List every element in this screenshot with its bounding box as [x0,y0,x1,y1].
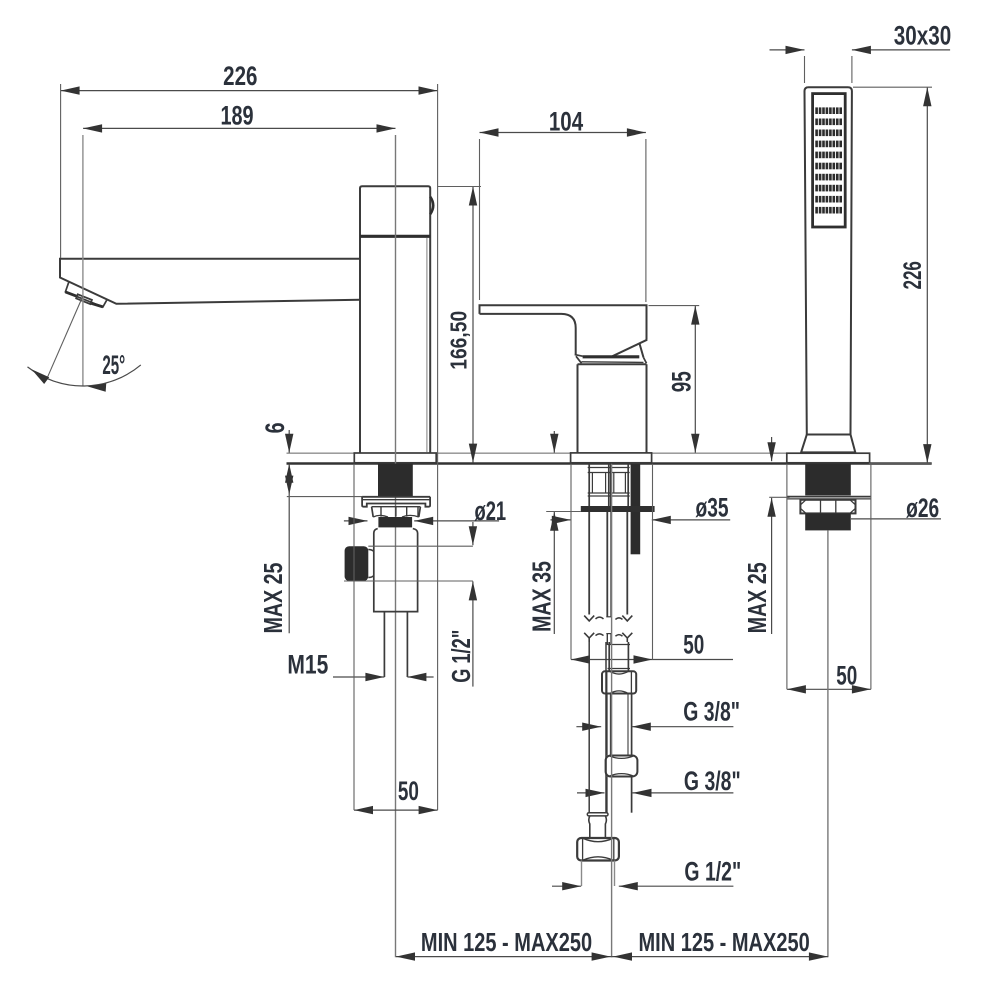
svg-text:G 3/8": G 3/8" [683,697,740,727]
faucet aerator bump [430,197,433,215]
hose A tube long [589,642,606,813]
mixer lever [480,305,647,354]
dim MIN 125 - MAX250 right [612,927,828,960]
mixer horseshoe washer (thick) [581,506,655,512]
svg-text:6: 6 [261,422,291,433]
faucet base flange [354,453,436,463]
hose break marks [584,616,632,645]
mixer mounting stud (black) [631,464,641,554]
dim M15 [287,650,433,681]
faucet valve body [374,529,418,612]
deck top surface line [287,452,870,454]
25deg slanted line [47,296,83,379]
dim G 1/2 left vertical [447,522,477,687]
faucet side port (black) [345,546,374,581]
ext line spout tip [60,84,62,258]
dim MAX 35 [527,431,581,634]
faucet shank black band [378,517,412,527]
svg-text:G 1/2": G 1/2" [447,630,476,683]
faucet centre line [395,135,397,957]
mixer base flange [571,453,652,463]
dim o26 leader [851,493,941,523]
faucet spout [60,259,360,304]
ref line side port bottom [344,580,473,582]
faucet castellated nut [372,507,421,517]
dim 30x30 [770,21,952,83]
svg-text:ø35: ø35 [695,492,728,522]
dim G 3/8 second [577,766,741,797]
spout outlet piece [65,282,106,307]
faucet body [360,186,430,453]
dim 226 top [61,61,438,95]
ref line side port top [368,545,473,547]
dim MIN 125 - MAX250 left [396,927,612,960]
svg-text:ø26: ø26 [906,493,939,523]
hose B tube mid [607,694,632,756]
dim 95 [649,306,700,453]
svg-text:MIN 125 - MAX250: MIN 125 - MAX250 [421,927,592,956]
ext line lever tip [479,139,481,300]
25deg arc [28,365,141,392]
dim o35 [551,492,731,524]
svg-text:50: 50 [836,660,857,690]
dim 189 [83,102,395,133]
svg-text:50: 50 [398,776,419,806]
svg-text:166,50: 166,50 [446,311,472,370]
faucet body seam [360,235,430,238]
dim G 1/2 bottom [552,856,741,890]
svg-text:95: 95 [666,371,696,392]
faucet washer [362,497,430,507]
svg-text:189: 189 [220,102,253,132]
dim 6 [261,422,293,452]
ext line faucet right / long right extension [437,84,439,810]
hose B tube to first nut [608,642,631,671]
svg-text:25°: 25° [102,349,125,380]
hand shower body [805,87,852,434]
svg-text:MAX 25: MAX 25 [742,562,771,633]
svg-text:G 1/2": G 1/2" [684,856,741,886]
deck bottom line [287,462,932,464]
hose A thread stub [582,861,615,887]
shower centre line [827,530,829,957]
shower washer lines [787,497,871,499]
faucet body inner reflection line [426,238,428,452]
faucet inlet pipe [384,612,407,677]
mixer centre line [611,464,613,957]
hose A hex nut G1/2 [577,838,619,861]
dim MAX 25 right [742,437,789,634]
svg-text:30x30: 30x30 [894,21,951,51]
dim o21 [344,496,506,526]
faucet threaded shank (black) [378,464,413,497]
mixer flex hoses upper [589,512,627,617]
hose B tube lower [607,777,632,813]
svg-text:G 3/8": G 3/8" [684,766,741,796]
vertical reference / 189 extension line [82,135,84,386]
dim G 3/8 first [576,697,740,731]
svg-text:MIN 125 - MAX250: MIN 125 - MAX250 [639,927,810,956]
svg-text:50: 50 [683,629,704,659]
shower thread block (black) [805,513,851,530]
svg-text:226: 226 [899,261,927,289]
svg-text:MAX 35: MAX 35 [527,561,556,632]
dim 226 right [853,87,932,463]
dim 50 left [354,464,438,815]
dim MAX 25 left [258,464,362,634]
dim 166,50 [438,187,481,463]
hose A end flange and neck [587,813,608,838]
svg-text:M15: M15 [287,650,328,680]
svg-text:ø21: ø21 [474,496,506,526]
dim 50 right [787,464,871,694]
ext line lever right [645,139,647,302]
svg-text:MAX 25: MAX 25 [258,562,287,633]
svg-text:226: 226 [223,61,257,91]
shower escutcheon [787,453,870,463]
dim 104 [480,107,646,137]
mixer body [578,364,647,453]
hose B coupling G3/8 [606,756,638,777]
mixer threaded tailpiece left [588,464,630,506]
dim 50 centre [571,464,733,664]
shower cone base [801,435,855,453]
shower hex nut [800,500,855,514]
hose B hex nut G3/8 [602,671,636,693]
svg-text:104: 104 [549,107,584,137]
25deg label [102,349,125,380]
mixer cartridge cap [575,340,648,364]
shower face plate [813,94,846,227]
shower threaded shank (black) [805,464,851,496]
